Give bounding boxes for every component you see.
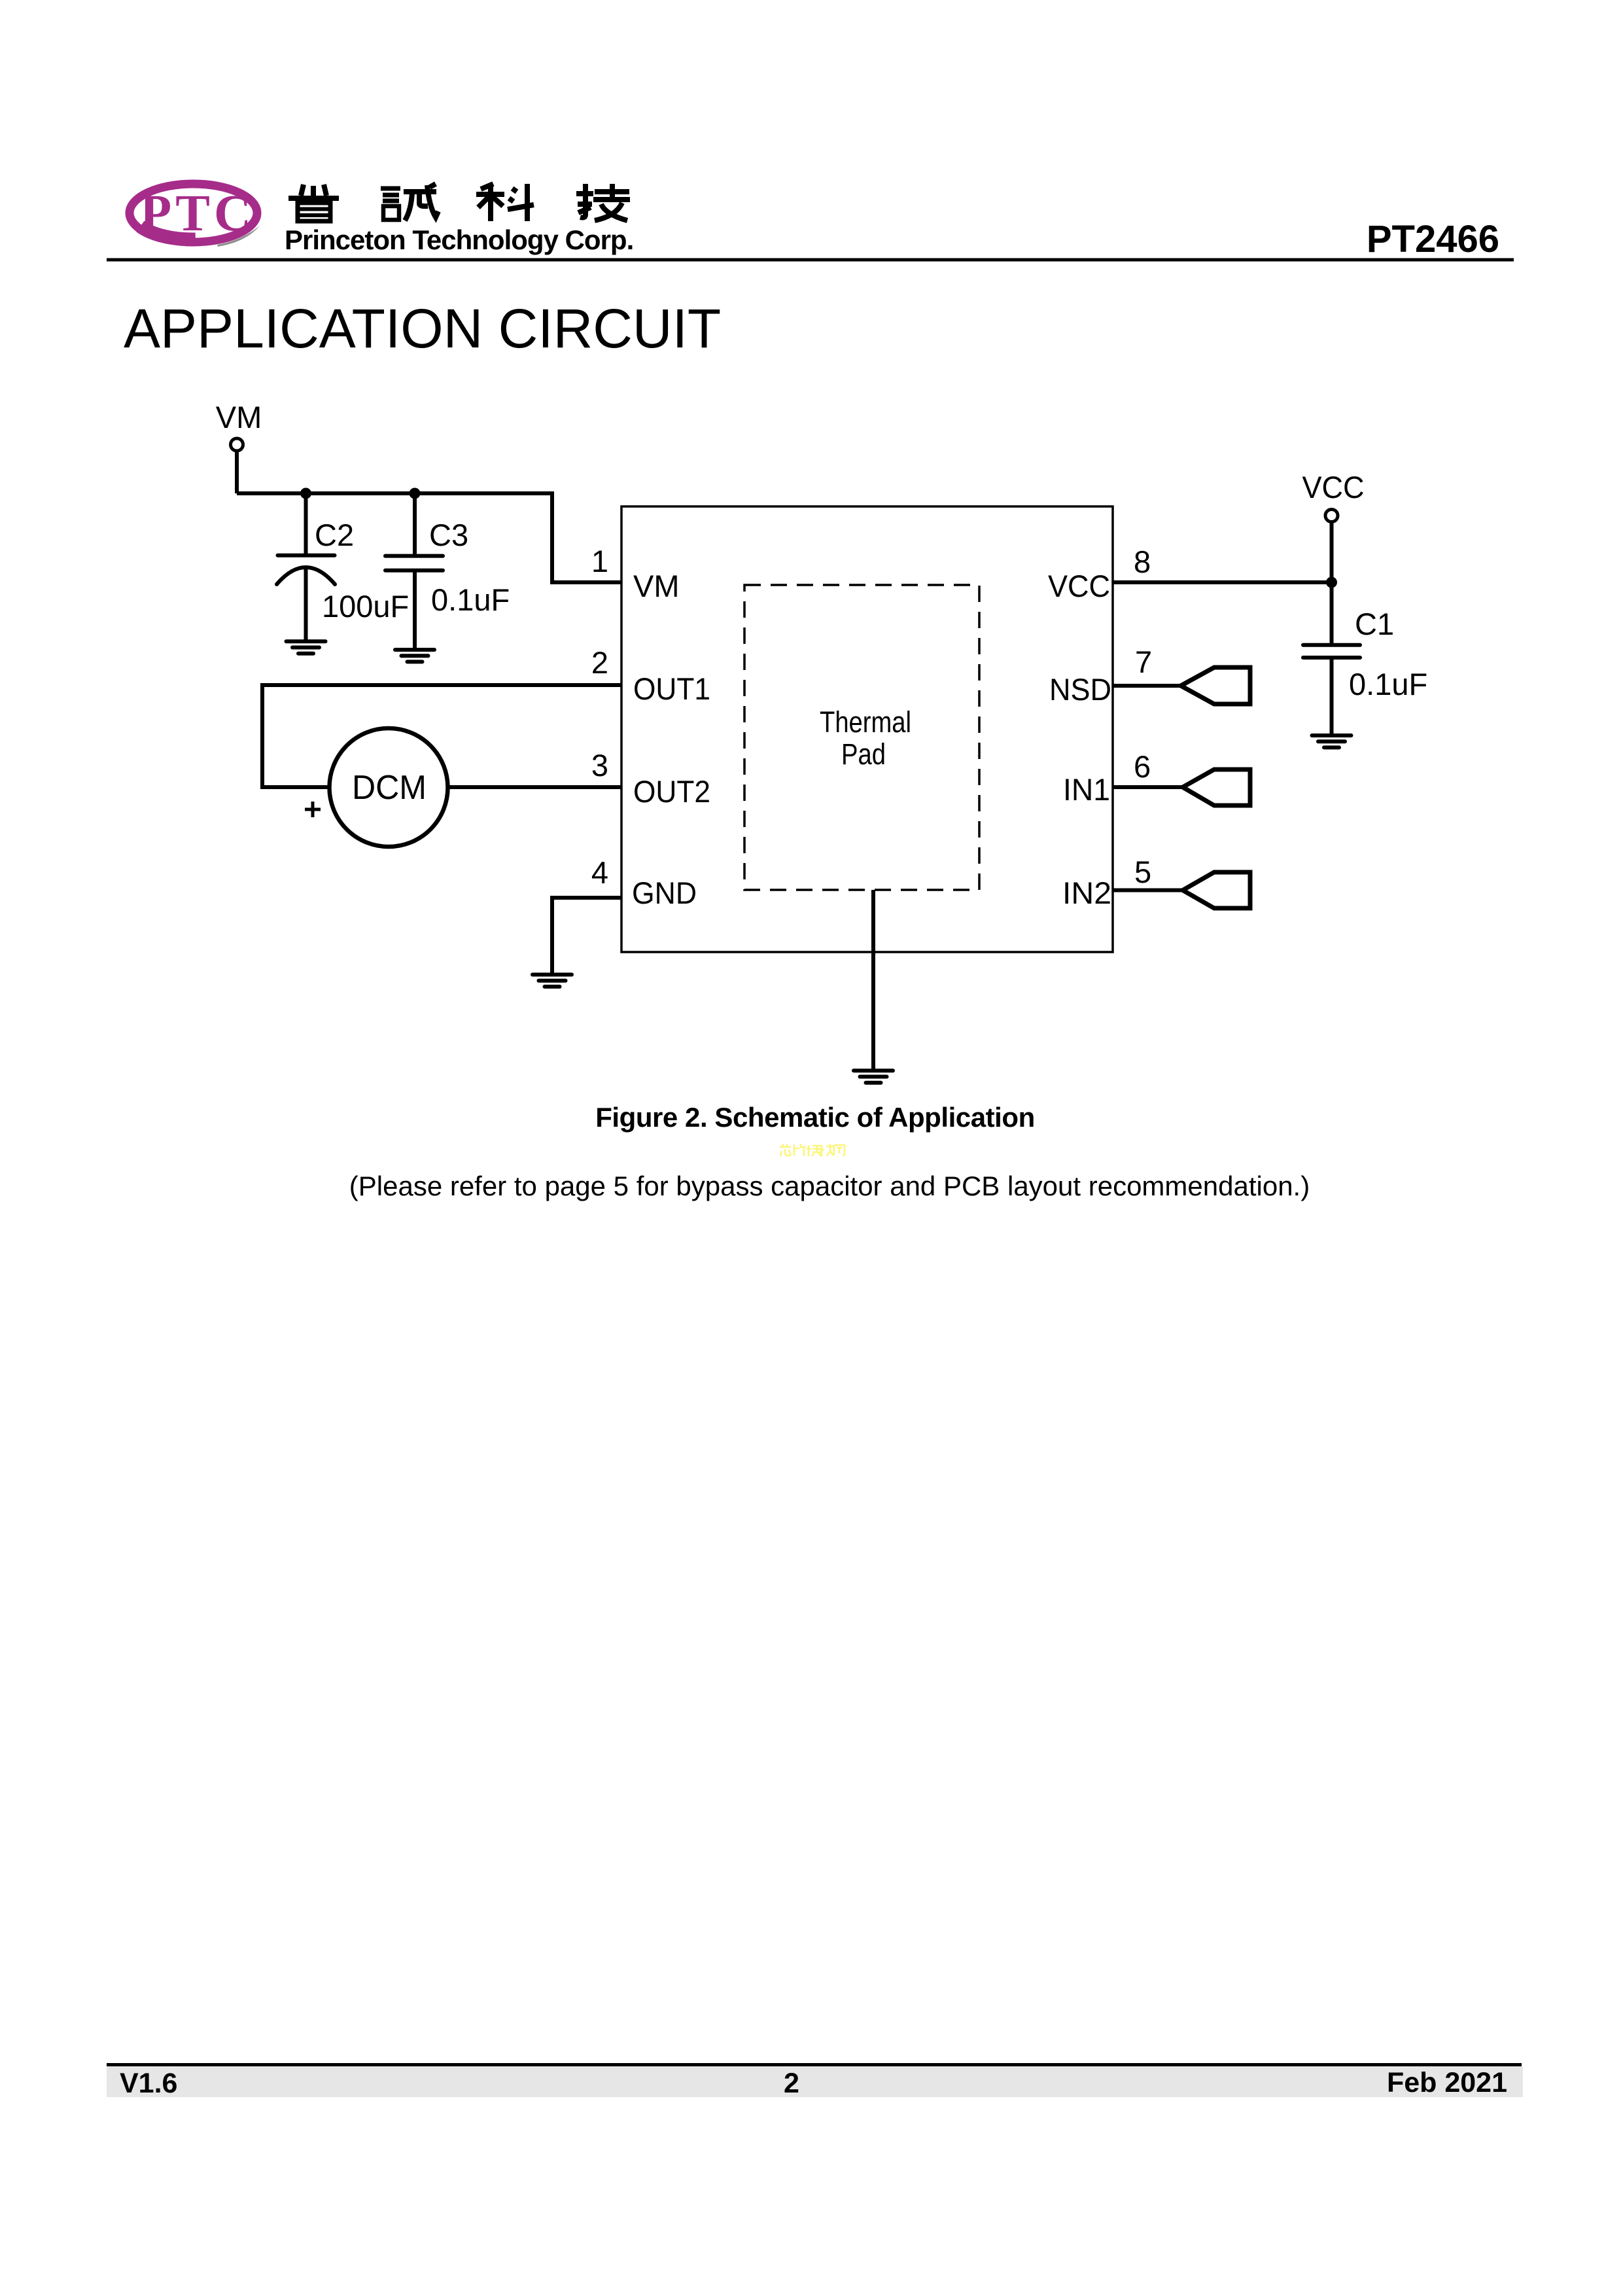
svg-text:OUT1: OUT1 (633, 671, 710, 706)
svg-text:Feb 2021: Feb 2021 (1387, 2067, 1507, 2098)
wire VM bus (237, 493, 621, 582)
junction C2 (300, 488, 311, 499)
capacitor C1 (1303, 645, 1360, 737)
thermal pad (dashed) (744, 585, 979, 890)
header rule (107, 258, 1514, 262)
wire thermal pad stub (871, 890, 875, 1070)
ground C2 (287, 641, 326, 653)
wire NSD pin7 (1113, 684, 1181, 688)
footer bar (107, 2066, 1523, 2097)
svg-text:6: 6 (1134, 749, 1151, 784)
wire VM vertical (235, 452, 239, 493)
IC U1 body (621, 506, 1113, 952)
wire OUT1 (262, 685, 621, 787)
char pu (288, 185, 339, 198)
svg-text:7: 7 (1135, 645, 1152, 679)
junction C3 (410, 488, 421, 499)
footer rule (107, 2063, 1522, 2066)
char ji (576, 184, 630, 221)
svg-text:3: 3 (591, 748, 608, 783)
schematic (231, 438, 1361, 1083)
svg-text:PTC: PTC (140, 185, 255, 242)
wire VCC pin8 (1113, 580, 1332, 584)
svg-text:VCC: VCC (1048, 569, 1110, 603)
wire IN2 pin5 (1113, 889, 1183, 892)
svg-text:VM: VM (633, 569, 680, 603)
wire GND pin (552, 898, 621, 974)
PTC logo gray swoosh (217, 226, 260, 247)
chinese company name (stroke approximation) (288, 184, 630, 221)
PTC logo thick swoosh (141, 226, 196, 239)
char ke (476, 184, 534, 221)
ground C1 (1312, 735, 1352, 747)
svg-text:(Please refer to page 5 for by: (Please refer to page 5 for bypass capac… (349, 1171, 1310, 1201)
svg-text:IN1: IN1 (1063, 772, 1110, 807)
svg-text:V1.6: V1.6 (120, 2068, 177, 2099)
svg-text:Figure 2. Schematic of Applica: Figure 2. Schematic of Application (595, 1102, 1035, 1133)
svg-text:4: 4 (591, 855, 608, 890)
svg-text:1: 1 (591, 544, 608, 578)
wire VCC vertical (1330, 522, 1334, 645)
svg-text:5: 5 (1134, 855, 1151, 889)
svg-text:0.1uF: 0.1uF (1349, 667, 1427, 701)
svg-text:Princeton Technology Corp.: Princeton Technology Corp. (285, 224, 633, 255)
svg-text:Thermal: Thermal (820, 705, 911, 739)
plus polarity mark (305, 802, 321, 817)
svg-text:8: 8 (1134, 544, 1151, 579)
svg-text:0.1uF: 0.1uF (431, 582, 510, 617)
motor DCM (330, 728, 448, 847)
svg-text:100uF: 100uF (322, 589, 409, 624)
svg-text:DCM: DCM (352, 769, 427, 807)
svg-text:C2: C2 (315, 518, 354, 552)
junction VCC/C1 (1326, 577, 1337, 588)
wire OUT2 (448, 785, 622, 789)
node VCC terminal (1325, 510, 1338, 522)
capacitor C2 (277, 493, 335, 643)
PTC logo ellipse (130, 184, 257, 242)
char cheng (381, 188, 400, 201)
schematic text labels (216, 400, 1427, 910)
svg-text:C1: C1 (1355, 607, 1394, 641)
svg-text:GND: GND (632, 875, 697, 910)
svg-text:C3: C3 (429, 518, 468, 552)
svg-text:PT2466: PT2466 (1367, 218, 1499, 260)
connector flag NSD (1181, 667, 1250, 704)
watermark (780, 1144, 845, 1156)
ground C3 (395, 650, 434, 662)
capacitor C3 (385, 493, 443, 652)
svg-text:Pad: Pad (841, 737, 886, 771)
ground GND pin (532, 975, 572, 987)
svg-text:2: 2 (784, 2068, 799, 2099)
svg-text:VCC: VCC (1302, 470, 1365, 504)
svg-text:VM: VM (216, 400, 262, 434)
ground thermal pad (854, 1070, 893, 1082)
svg-text:NSD: NSD (1049, 672, 1111, 707)
svg-text:IN2: IN2 (1062, 875, 1111, 910)
connector flag IN1 (1183, 769, 1250, 805)
connector flag IN2 (1183, 872, 1250, 908)
svg-text:OUT2: OUT2 (633, 774, 710, 809)
node VM terminal (231, 438, 243, 451)
svg-text:2: 2 (591, 645, 608, 680)
wire IN1 pin6 (1113, 785, 1183, 789)
svg-text:APPLICATION CIRCUIT: APPLICATION CIRCUIT (124, 298, 721, 359)
